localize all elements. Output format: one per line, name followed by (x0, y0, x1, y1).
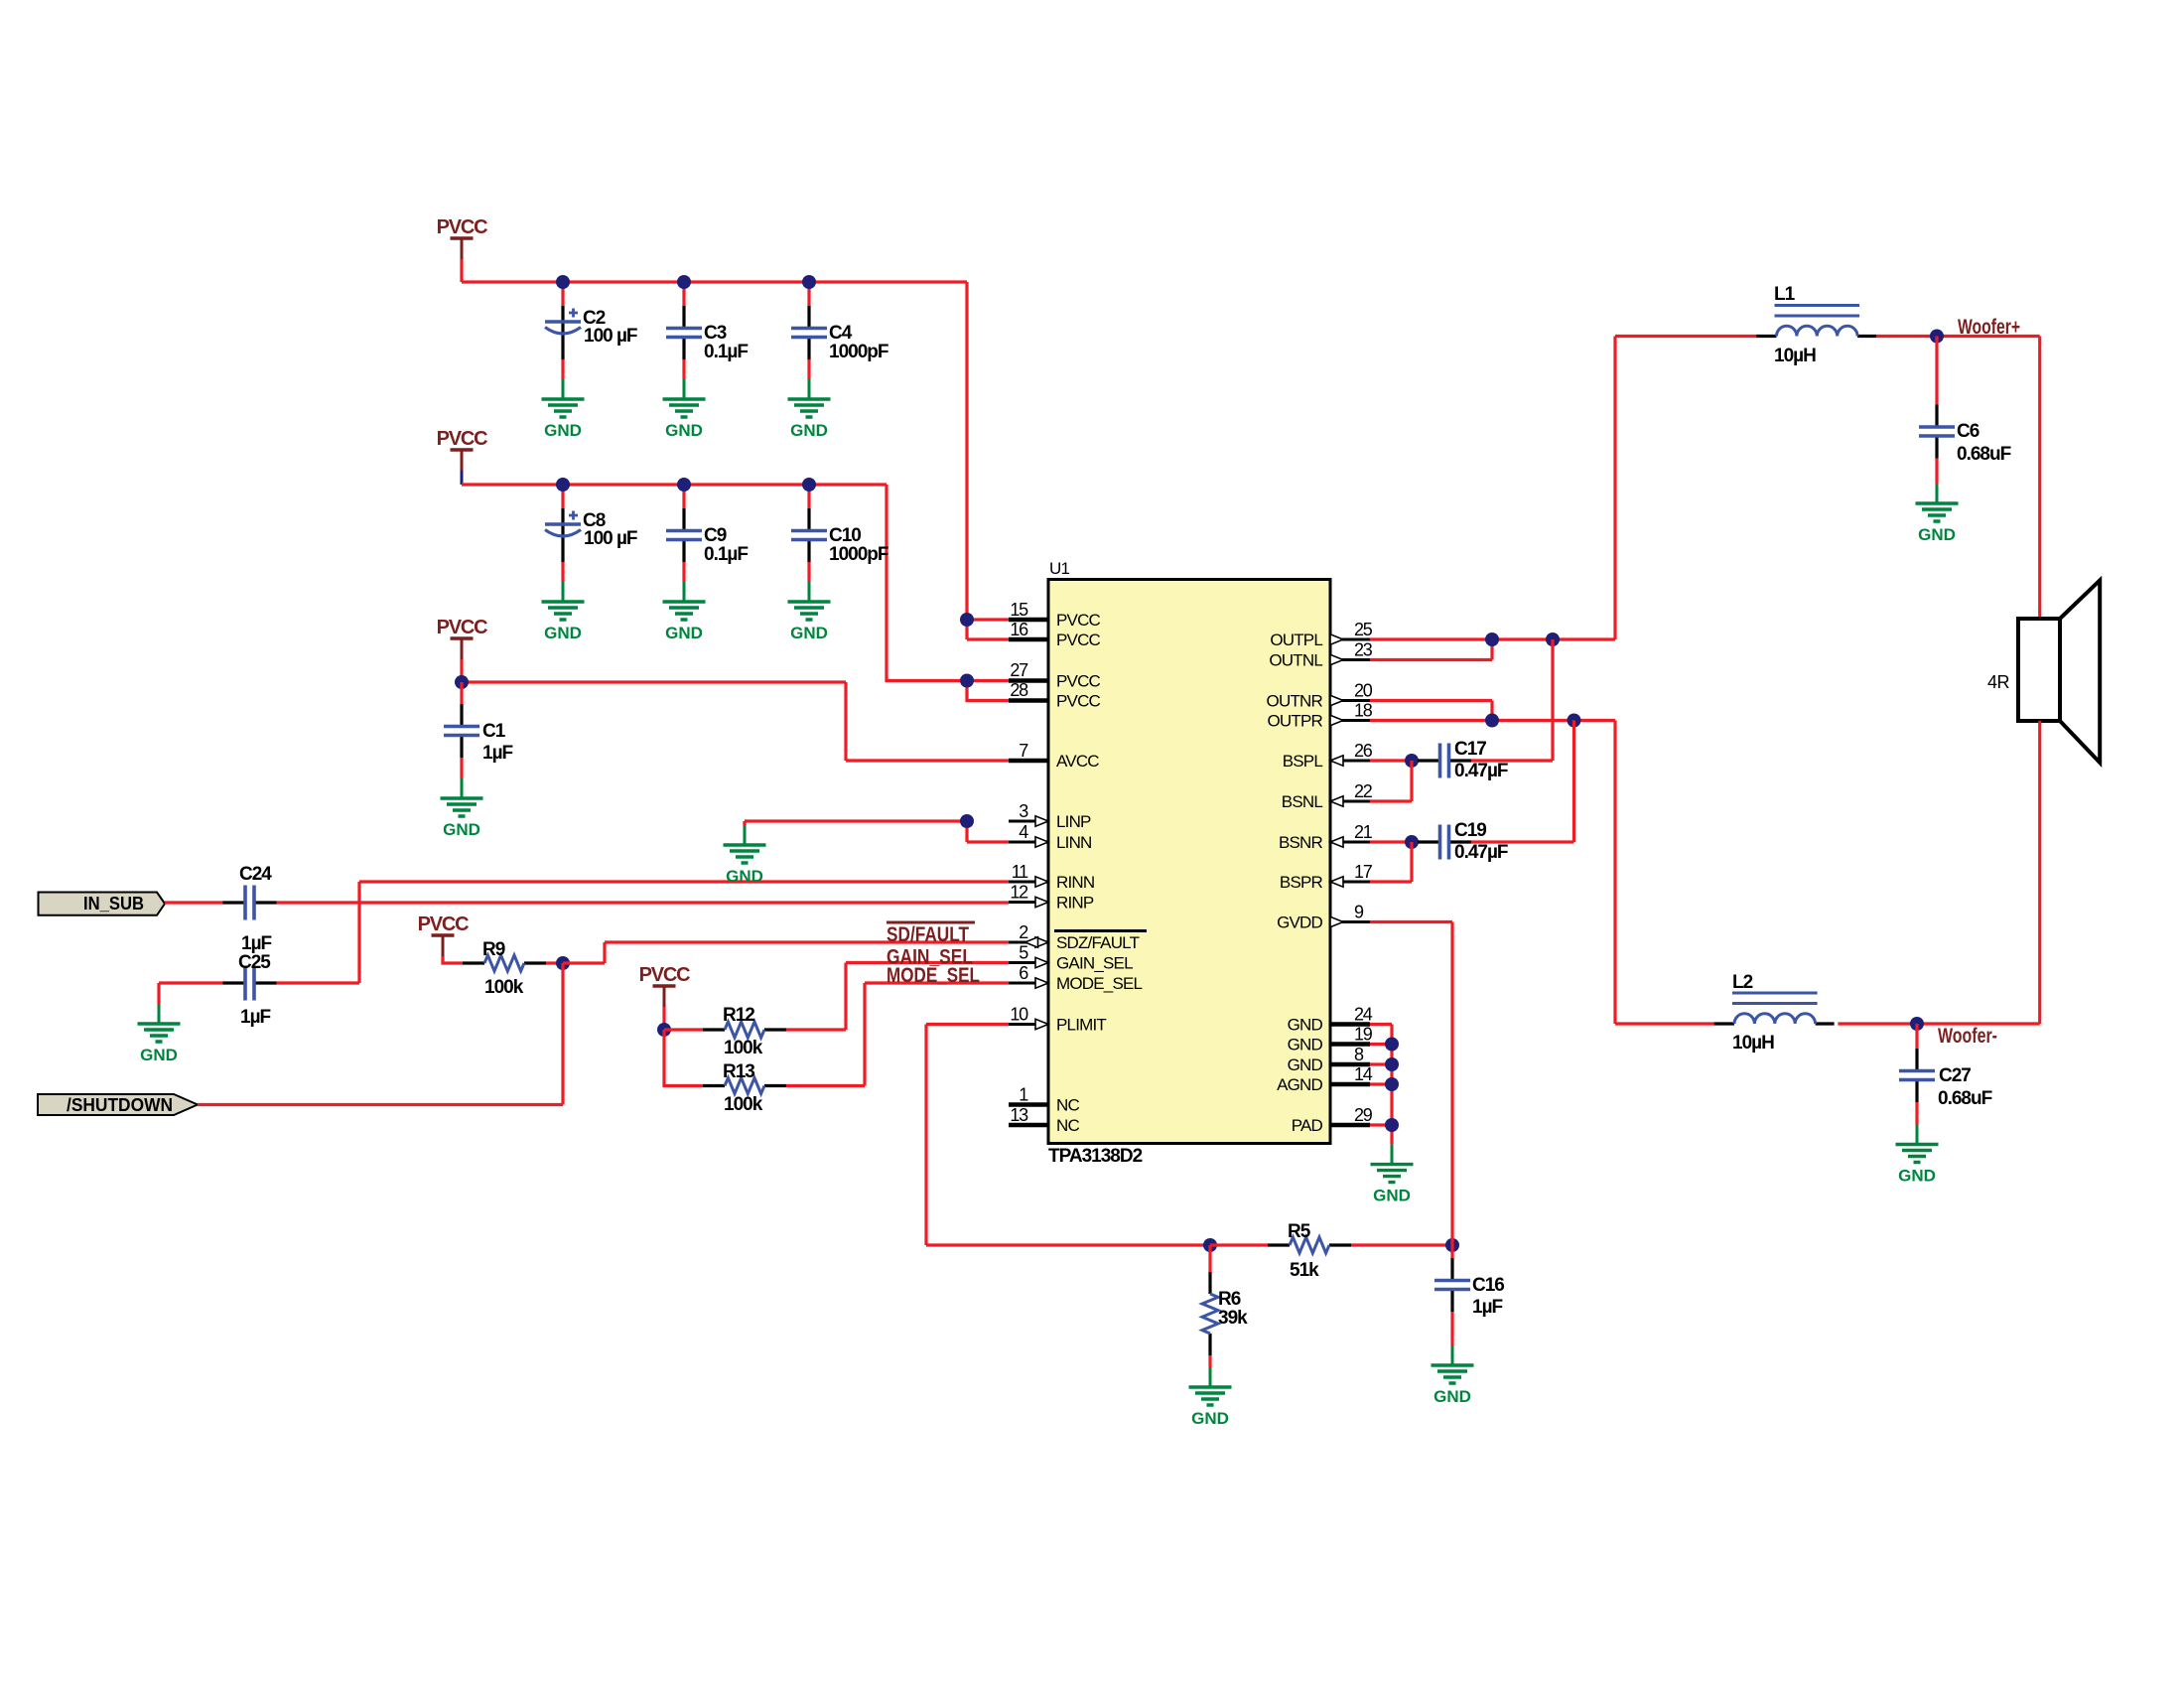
svg-text:C10: C10 (829, 525, 861, 546)
wire C16 bottom stub (1450, 1312, 1453, 1345)
capacitor C10 (791, 508, 888, 565)
resistor R6 (1202, 1272, 1248, 1355)
ground below PAD (1371, 1145, 1414, 1205)
pin 22 BSNL (1282, 781, 1373, 811)
svg-text:L1: L1 (1774, 284, 1796, 305)
wire C27 bottom stub (1915, 1102, 1918, 1125)
power symbol PVCC AVCC filter (437, 617, 488, 659)
junction rail1 C4 (802, 275, 816, 289)
capacitor C2 (545, 306, 637, 359)
wire C2 bottom stub (561, 359, 564, 379)
svg-text:25: 25 (1354, 620, 1373, 639)
svg-text:10µH: 10µH (1732, 1033, 1774, 1054)
svg-text:1µF: 1µF (240, 1007, 271, 1028)
junction Woofer-/C27 (1910, 1017, 1924, 1031)
svg-text:0.68uF: 0.68uF (1938, 1088, 1992, 1109)
wire SD/FAULT net to pin 2 (563, 942, 1009, 963)
svg-text:R12: R12 (723, 1005, 754, 1026)
wire PLIMIT net (926, 1025, 1210, 1246)
svg-text:16: 16 (1010, 620, 1028, 639)
svg-text:AVCC: AVCC (1056, 752, 1099, 771)
wire C19 to OUTPR line (1471, 721, 1574, 843)
wire RINN net (277, 882, 1010, 983)
wire PVCC1 stem (460, 259, 463, 282)
pin 24 GND (1288, 1005, 1373, 1035)
ground below C6 (1916, 484, 1959, 544)
wire PVCC4 to R9 (443, 956, 463, 963)
wire PVCC5 stem (662, 1007, 665, 1030)
node SD/FAULT label (887, 922, 975, 946)
svg-text:0.1µF: 0.1µF (704, 342, 748, 362)
svg-text:12: 12 (1010, 883, 1028, 903)
svg-text:GND: GND (1288, 1036, 1323, 1055)
svg-text:100k: 100k (724, 1038, 763, 1058)
ground below C27 (1896, 1125, 1939, 1186)
ground below C10 (788, 582, 831, 642)
svg-text:4R: 4R (1987, 672, 2010, 692)
wire GAIN_SEL net (786, 963, 1009, 1031)
op-amp U1 TPA3138D2 IC body (1048, 559, 1330, 1167)
svg-text:C1: C1 (482, 721, 506, 742)
svg-text:0.47µF: 0.47µF (1454, 761, 1508, 781)
power symbol PVCC rail2 (437, 428, 488, 471)
svg-text:LINN: LINN (1056, 833, 1092, 852)
junction rail2 C10 (802, 478, 816, 492)
wire C9 top stub (682, 485, 685, 508)
wire C8 bottom stub (561, 562, 564, 582)
svg-text:Woofer+: Woofer+ (1958, 316, 2020, 339)
wire OUTPR net (1370, 721, 1714, 1025)
wire R6 top stub (1208, 1245, 1211, 1272)
wire /SHUTDOWN net (198, 1103, 563, 1106)
junction AGND pin14 (1385, 1077, 1399, 1091)
pin 23 OUTNL (1269, 640, 1372, 670)
wire C6 top stub (1935, 337, 1938, 405)
svg-text:BSNL: BSNL (1282, 792, 1323, 811)
pin 20 OUTNR (1267, 681, 1373, 711)
svg-text:GAIN_SEL: GAIN_SEL (1056, 954, 1133, 973)
capacitor C1 (444, 704, 513, 764)
pin 2 SDZ/FAULT (1009, 922, 1147, 952)
svg-text:C16: C16 (1472, 1275, 1504, 1296)
svg-text:3: 3 (1019, 801, 1028, 821)
ground LIN inputs (724, 825, 766, 886)
svg-text:PVCC: PVCC (1056, 692, 1101, 711)
svg-text:MODE_SEL: MODE_SEL (1056, 974, 1143, 993)
svg-text:C27: C27 (1939, 1065, 1971, 1086)
pin 29 PAD (1292, 1105, 1373, 1135)
pin 4 LINN (1009, 822, 1092, 852)
svg-text:0.1µF: 0.1µF (704, 544, 748, 565)
svg-text:22: 22 (1354, 781, 1373, 801)
ground below C9 (663, 582, 706, 642)
junction BSPL/BSNL (1405, 754, 1419, 768)
svg-text:0.68uF: 0.68uF (1957, 444, 2011, 465)
svg-text:17: 17 (1354, 862, 1373, 882)
wire OUTNR net (1370, 701, 1492, 721)
pin 11 RINN (1009, 862, 1094, 892)
junction rail1 C2 (556, 275, 570, 289)
junction rail2/pin27 (960, 674, 974, 688)
ground below C2 (542, 379, 585, 440)
wire R5 to C16 junction (1351, 1243, 1452, 1246)
svg-text:OUTPL: OUTPL (1270, 631, 1322, 649)
svg-text:BSPR: BSPR (1280, 873, 1323, 892)
wire C1 bottom stub (460, 758, 463, 778)
wire AVCC net (462, 682, 1009, 761)
wire PLIMIT to R5 (1210, 1243, 1268, 1246)
svg-text:IN_SUB: IN_SUB (83, 894, 144, 914)
svg-text:C6: C6 (1957, 421, 1979, 442)
pin 18 OUTPR (1267, 701, 1372, 731)
svg-text:NC: NC (1056, 1116, 1079, 1135)
wire speaker to Woofer- (2038, 721, 2041, 1024)
svg-text:28: 28 (1010, 680, 1028, 700)
resistor R5 (1268, 1221, 1351, 1281)
wire BSNL net (1370, 761, 1412, 801)
svg-text:PVCC: PVCC (1056, 611, 1101, 630)
wire GND pins bus (1370, 1025, 1392, 1145)
svg-text:C19: C19 (1454, 820, 1486, 841)
capacitor C19 (1418, 820, 1508, 863)
svg-text:BSPL: BSPL (1283, 752, 1323, 771)
pin 6 MODE_SEL (1009, 963, 1143, 993)
svg-text:11: 11 (1012, 862, 1028, 882)
junction GND pin19 (1385, 1038, 1399, 1052)
ground below C4 (788, 379, 831, 440)
svg-text:100k: 100k (484, 977, 524, 998)
svg-text:18: 18 (1354, 701, 1373, 721)
capacitor C6 (1919, 405, 2011, 466)
pin 13 NC (1009, 1105, 1079, 1135)
svg-text:C3: C3 (704, 323, 727, 344)
wire PVCC5 down to R13 (664, 1030, 703, 1086)
wire to pin 28 (967, 681, 1009, 701)
pin 17 BSPR (1280, 862, 1373, 892)
svg-text:2: 2 (1019, 922, 1028, 942)
svg-text:R6: R6 (1218, 1289, 1241, 1310)
svg-text:PAD: PAD (1292, 1116, 1323, 1135)
pin 12 RINP (1009, 883, 1094, 913)
wire to pin 27 (967, 679, 1009, 682)
pin 3 LINP (1009, 801, 1091, 831)
inductor L2 (1714, 972, 1835, 1054)
svg-text:27: 27 (1010, 660, 1028, 680)
svg-text:24: 24 (1354, 1005, 1373, 1025)
wire C6 bottom stub (1935, 459, 1938, 485)
capacitor C27 (1899, 1049, 1992, 1109)
junction PLIMIT/R6/R5 (1203, 1238, 1217, 1252)
junction Woofer+/C6 (1930, 330, 1944, 344)
pin 28 PVCC (1009, 680, 1101, 711)
capacitor C16 (1434, 1258, 1504, 1318)
svg-text:TPA3138D2: TPA3138D2 (1048, 1146, 1143, 1167)
wire C3 top stub (682, 282, 685, 306)
capacitor C9 (666, 508, 748, 565)
svg-text:1000pF: 1000pF (829, 544, 888, 565)
wire shutdown vertical (561, 963, 564, 1105)
pin 7 AVCC (1009, 741, 1099, 771)
junction R5/C16/GVDD (1445, 1238, 1459, 1252)
svg-text:100 µF: 100 µF (584, 528, 637, 549)
svg-text:LINP: LINP (1056, 812, 1091, 831)
wire rail2 down to pins 27/28 (887, 485, 967, 681)
port IN_SUB (39, 893, 166, 915)
svg-text:10: 10 (1010, 1005, 1028, 1025)
wire C17 to OUTPL line (1471, 639, 1553, 761)
pin 21 BSNR (1279, 822, 1373, 852)
svg-text:20: 20 (1354, 681, 1373, 701)
capacitor C25 (223, 952, 277, 1028)
svg-text:23: 23 (1354, 640, 1373, 660)
svg-text:7: 7 (1019, 741, 1028, 761)
svg-text:4: 4 (1019, 822, 1028, 842)
pin 25 OUTPL (1270, 620, 1372, 649)
ground below R6 (1189, 1367, 1232, 1428)
svg-text:RINN: RINN (1056, 873, 1094, 892)
pin 5 GAIN_SEL (1009, 943, 1133, 973)
ground below C25 (138, 1004, 181, 1064)
wire OUTNL net (1370, 639, 1492, 660)
junction OUTPL/OUTNL (1485, 633, 1499, 646)
svg-text:PVCC: PVCC (1056, 631, 1101, 649)
speaker 4R (1987, 580, 2100, 763)
power symbol PVCC R12/R13 (639, 964, 691, 1007)
wire R6 bottom stub (1208, 1355, 1211, 1367)
svg-text:GND: GND (1288, 1016, 1323, 1035)
svg-text:L2: L2 (1732, 972, 1753, 993)
svg-text:U1: U1 (1049, 559, 1069, 578)
wire C4 bottom stub (807, 359, 810, 379)
svg-text:13: 13 (1010, 1105, 1028, 1125)
wire C9 bottom stub (682, 562, 685, 582)
svg-text:1000pF: 1000pF (829, 342, 888, 362)
svg-text:RINP: RINP (1056, 894, 1094, 913)
junction OUTPR/OUTNR (1485, 714, 1499, 728)
svg-text:Woofer-: Woofer- (1938, 1025, 1997, 1048)
wire C16 top stub (1450, 1245, 1453, 1258)
wire C10 top stub (807, 485, 810, 508)
svg-text:8: 8 (1354, 1045, 1364, 1064)
svg-text:MODE_SEL: MODE_SEL (887, 964, 980, 987)
wire C2 top stub (561, 282, 564, 306)
svg-text:/SHUTDOWN: /SHUTDOWN (67, 1095, 173, 1115)
svg-text:PVCC: PVCC (1056, 672, 1101, 691)
wire GVDD net (1370, 922, 1452, 1246)
resistor R12 (703, 1005, 786, 1058)
svg-text:0.47µF: 0.47µF (1454, 842, 1508, 863)
svg-text:100 µF: 100 µF (584, 326, 637, 347)
svg-text:C24: C24 (239, 864, 272, 885)
svg-text:C4: C4 (829, 323, 853, 344)
svg-text:15: 15 (1010, 600, 1028, 620)
wire C25 to ground (159, 983, 223, 1004)
pin 1 NC (1009, 1085, 1079, 1115)
svg-text:NC: NC (1056, 1096, 1079, 1115)
svg-text:C25: C25 (238, 952, 271, 973)
wire PVCC rail 1 (462, 280, 967, 283)
svg-text:1µF: 1µF (482, 743, 513, 764)
svg-text:14: 14 (1354, 1064, 1373, 1084)
junction rail1/pin15 (960, 613, 974, 627)
junction PAD pin29 (1385, 1118, 1399, 1132)
svg-text:29: 29 (1354, 1105, 1373, 1125)
wire to pin 15 (967, 618, 1009, 621)
svg-text:19: 19 (1354, 1025, 1373, 1045)
svg-text:AGND: AGND (1277, 1075, 1322, 1094)
pin 26 BSPL (1283, 741, 1373, 771)
svg-text:PLIMIT: PLIMIT (1056, 1016, 1106, 1035)
svg-text:26: 26 (1354, 741, 1373, 761)
junction OUTPR/C19 feed (1568, 714, 1581, 728)
svg-text:21: 21 (1354, 822, 1373, 842)
svg-text:C17: C17 (1454, 739, 1486, 760)
wire R9 to junction (546, 961, 563, 964)
wire PVCC rail 2 (462, 483, 887, 486)
junction AVCC/C1 (455, 675, 469, 689)
capacitor C17 (1418, 739, 1508, 781)
ground below C8 (542, 582, 585, 642)
pin 16 PVCC (1009, 620, 1101, 649)
wire to R12 (664, 1028, 703, 1031)
ground below C3 (663, 379, 706, 440)
wire C27 top stub (1915, 1024, 1918, 1049)
svg-text:R13: R13 (723, 1061, 754, 1082)
wire PVCC3 stem (460, 659, 463, 682)
svg-text:1µF: 1µF (241, 933, 272, 954)
junction OUTPL/C17 feed (1546, 633, 1560, 646)
wire PVCC2 stem navy segment (461, 471, 464, 485)
svg-text:R9: R9 (482, 939, 505, 960)
junction rail1 C3 (677, 275, 691, 289)
svg-text:GND: GND (1288, 1055, 1323, 1074)
svg-text:6: 6 (1019, 963, 1028, 983)
resistor R13 (703, 1061, 786, 1115)
wire to pin 16 (967, 637, 1009, 640)
wire L1 to Woofer+ (1876, 337, 2040, 620)
pin 8 GND (1288, 1045, 1370, 1074)
svg-text:51k: 51k (1290, 1260, 1319, 1281)
wire C1 top stub (460, 682, 463, 704)
svg-text:OUTNL: OUTNL (1269, 651, 1322, 670)
wire RINP net (277, 901, 1010, 904)
wire C10 bottom stub (807, 562, 810, 582)
pin 14 AGND (1277, 1064, 1373, 1094)
svg-text:5: 5 (1019, 943, 1028, 963)
capacitor C3 (666, 306, 748, 362)
svg-text:BSNR: BSNR (1279, 833, 1323, 852)
capacitor C24 (223, 864, 277, 954)
power symbol PVCC pullup R9 (418, 914, 470, 956)
junction PVCC5/R12 (657, 1023, 671, 1037)
pin 15 PVCC (1009, 600, 1101, 630)
junction R9/shutdown (556, 956, 570, 970)
port /SHUTDOWN (38, 1094, 198, 1115)
junction LINP/LINN (960, 814, 974, 828)
pin 9 GVDD (1277, 903, 1370, 932)
wire C3 bottom stub (682, 359, 685, 379)
wire OUTPL net (1370, 337, 1756, 640)
ground below C1 (441, 778, 483, 839)
pin 27 PVCC (1009, 660, 1101, 691)
junction BSNR/BSPR (1405, 835, 1419, 849)
resistor R9 (463, 939, 546, 998)
svg-text:100k: 100k (724, 1094, 763, 1115)
ground below C16 (1432, 1345, 1474, 1406)
junction rail2 C8 (556, 478, 570, 492)
svg-text:10µH: 10µH (1774, 346, 1816, 366)
junction rail2 C9 (677, 478, 691, 492)
wire BSPR net (1370, 842, 1412, 882)
capacitor C8 (545, 508, 637, 562)
pin 19 GND (1288, 1025, 1373, 1055)
svg-text:OUTNR: OUTNR (1267, 692, 1323, 711)
junction GND pin8 (1385, 1057, 1399, 1071)
wire L2 to Woofer- (1838, 1022, 2039, 1025)
capacitor C4 (791, 306, 888, 362)
wire BSPL to C17 (1370, 759, 1418, 762)
svg-text:39k: 39k (1218, 1308, 1248, 1329)
svg-text:OUTPR: OUTPR (1267, 712, 1322, 731)
wire BSNR to C19 (1370, 840, 1418, 843)
wire IN_SUB to C24 (165, 901, 223, 904)
svg-text:GVDD: GVDD (1277, 914, 1322, 932)
svg-text:1µF: 1µF (1472, 1297, 1503, 1318)
wire MODE_SEL net (786, 983, 1009, 1086)
svg-text:SDZ/FAULT: SDZ/FAULT (1056, 933, 1140, 952)
svg-text:9: 9 (1354, 903, 1364, 922)
wire C4 top stub (807, 282, 810, 306)
power symbol PVCC rail1 (437, 216, 488, 259)
svg-text:1: 1 (1019, 1085, 1028, 1105)
wire rail1 down to pins 15/16 (965, 282, 968, 639)
wire C8 top stub (561, 485, 564, 508)
wire LINP/LINN tie (745, 821, 1009, 842)
svg-text:C9: C9 (704, 525, 727, 546)
svg-text:R5: R5 (1288, 1221, 1311, 1242)
pin 10 PLIMIT (1009, 1005, 1106, 1035)
inductor L1 (1756, 284, 1876, 366)
svg-text:SD/FAULT: SD/FAULT (887, 923, 969, 946)
